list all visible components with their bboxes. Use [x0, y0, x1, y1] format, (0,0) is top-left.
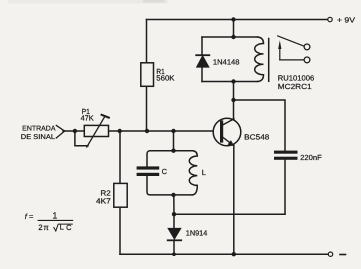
wire bottom rail	[120, 253, 328, 255]
node C input junction	[73, 129, 77, 133]
potentiometer P1 wiper arrow	[87, 117, 105, 148]
potentiometer P1 body	[84, 125, 108, 136]
node K 220nF link junction	[172, 212, 176, 216]
wire 220nF bottom	[284, 160, 286, 214]
wire R1 bottom to base line	[146, 86, 148, 131]
scan artifact streak (decorative)	[8, 0, 168, 4]
inductor L coil	[189, 151, 197, 195]
wire tank top	[150, 150, 192, 152]
transistor Q1 BC548 circle	[213, 118, 241, 146]
wire R1 top branch	[146, 20, 148, 63]
wire relay box bottom	[202, 81, 258, 83]
node L emitter rail junction	[232, 252, 236, 256]
wire emitter down	[233, 145, 235, 254]
svg-text:L: L	[202, 168, 206, 177]
capacitor 220nF plates	[274, 151, 298, 160]
resistor R2	[114, 183, 127, 207]
svg-text:ENTRADA: ENTRADA	[22, 126, 56, 133]
svg-text:DE SINAL: DE SINAL	[21, 134, 55, 141]
svg-text:2: 2	[38, 223, 42, 232]
wire tank bottom to node	[173, 195, 175, 214]
svg-text:f: f	[25, 212, 28, 221]
transistor collector lead	[223, 119, 235, 125]
svg-text:4K7: 4K7	[96, 196, 111, 205]
wire tank top-left corner	[147, 151, 150, 166]
wire relay branch up	[233, 20, 235, 38]
wire node to diode 1N914	[173, 214, 175, 228]
wire base line	[63, 130, 222, 132]
node B base/tank junction	[171, 129, 175, 133]
input arrow ENTRADA	[56, 125, 64, 131]
svg-text:1N914: 1N914	[186, 228, 208, 237]
wire 220nF top link	[234, 100, 286, 151]
wire 220nF bottom link	[174, 213, 285, 215]
wire tank top branch	[173, 131, 175, 151]
potentiometer P1 wiper loop wire	[75, 131, 88, 146]
diode D1 1N4148	[196, 55, 209, 67]
wire R2 branch down	[119, 131, 121, 183]
relay coil	[255, 37, 264, 82]
wire collector branch	[233, 82, 235, 119]
terminal +9V	[328, 17, 332, 21]
node D pot out junction	[118, 129, 122, 133]
svg-text:=: =	[29, 212, 34, 221]
svg-text:220nF: 220nF	[300, 153, 322, 162]
wire diode to rail	[173, 240, 175, 254]
wire relay box left upper	[201, 37, 203, 55]
diode D2 1N914	[168, 229, 182, 241]
relay contact upper	[304, 44, 310, 50]
svg-text:+ 9V: + 9V	[337, 15, 355, 24]
formula f = 1/(2 pi sqrt LC)	[25, 210, 73, 232]
wire C bottom	[147, 176, 192, 195]
label minus terminal	[340, 254, 346, 256]
terminal negative	[328, 252, 332, 256]
node M diode rail junction	[172, 252, 176, 256]
wire relay box left lower	[201, 67, 203, 82]
node H collector junction	[231, 98, 235, 102]
relay core line	[268, 39, 270, 82]
wire relay box top	[202, 36, 258, 38]
svg-text:MC2RC1: MC2RC1	[278, 82, 312, 91]
node E top rail junction	[231, 17, 235, 21]
svg-text:π: π	[43, 223, 49, 232]
resistor R1	[141, 63, 154, 87]
potentiometer P1 wiper arrowhead	[102, 115, 109, 118]
svg-text:560K: 560K	[156, 74, 174, 83]
transistor emitter lead	[223, 137, 234, 146]
node G relay bottom junction	[231, 79, 235, 83]
node F relay top junction	[231, 35, 235, 39]
transistor emitter arrowhead	[228, 140, 235, 146]
svg-text:C: C	[162, 167, 168, 176]
relay contact lower	[304, 57, 310, 63]
relay switch armature arrow	[278, 40, 303, 60]
node I tank top junction	[171, 149, 175, 153]
svg-text:47K: 47K	[81, 113, 94, 122]
transistor base bar	[220, 122, 223, 141]
capacitor C plates	[137, 166, 160, 176]
wire R2 to bottom rail	[119, 207, 121, 254]
svg-text:1: 1	[52, 210, 57, 220]
wire top rail +9V	[147, 19, 327, 21]
relay switch lever	[278, 36, 304, 46]
svg-text:1N4148: 1N4148	[213, 57, 240, 66]
svg-text:BC548: BC548	[244, 132, 269, 141]
node J tank bottom junction	[171, 193, 175, 197]
node A base/R1 junction	[145, 129, 149, 133]
